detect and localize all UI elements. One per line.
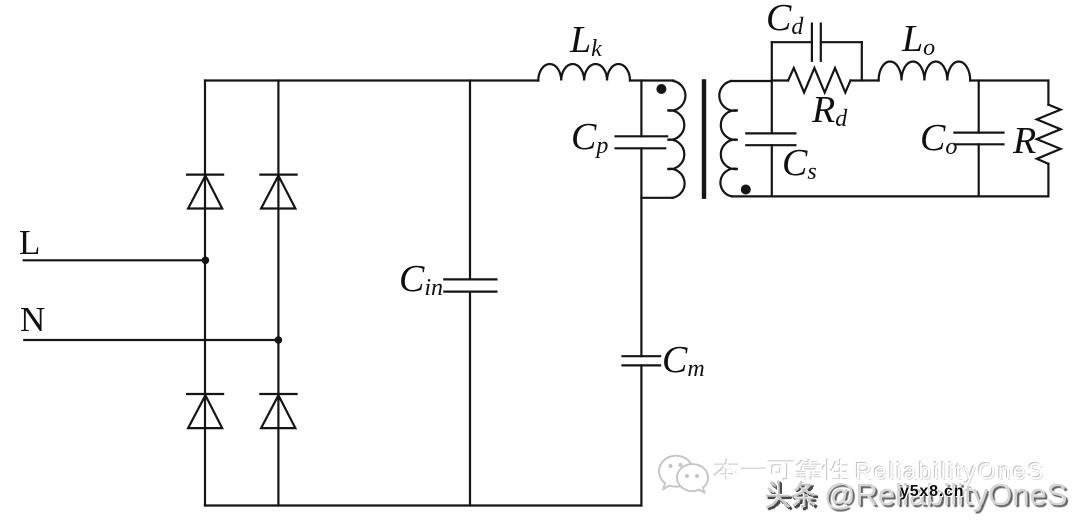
label R	[1013, 122, 1036, 160]
label L	[19, 225, 40, 260]
transformer secondary winding	[719, 81, 737, 196]
wire Cm to bottom rail	[640, 365, 642, 505]
watermark text line2	[824, 477, 1067, 513]
wire R branch upper	[1047, 81, 1049, 105]
wire primary branch lower	[640, 148, 642, 356]
wire Cd box top left	[772, 41, 812, 43]
watermark cjk line1 (ben yi ke kao xing)	[714, 459, 849, 481]
wire secondary top	[731, 80, 772, 82]
wire Cd box top right	[821, 41, 862, 43]
wire Cs branch lower	[771, 145, 773, 196]
wire Cs branch upper	[771, 42, 773, 133]
wire bridge left vertical	[204, 81, 206, 506]
capacitor Cd	[812, 24, 821, 61]
label Rd	[812, 91, 847, 131]
watermark url	[900, 483, 964, 501]
wire N input	[24, 339, 278, 341]
watermark text line1	[855, 458, 1045, 485]
wire Lk to primary	[630, 79, 673, 81]
label Lo	[902, 20, 935, 60]
resistor R	[1037, 105, 1061, 164]
resistor Rd	[788, 68, 850, 93]
label Cin	[399, 260, 443, 300]
wire primary bottom	[641, 197, 672, 199]
diode D2	[260, 175, 296, 209]
diode D1	[187, 175, 223, 209]
capacitor Cm	[623, 356, 661, 365]
diode D4	[260, 394, 296, 428]
watermark cjk line2 (tou tiao)	[768, 482, 818, 510]
wire bottom rail	[205, 504, 641, 506]
wire primary branch upper	[640, 81, 642, 137]
capacitor Co	[954, 133, 1003, 145]
label Cd	[766, 0, 803, 39]
inductor Lk	[538, 64, 630, 81]
wire secondary bottom rail	[732, 195, 1048, 197]
label Co	[920, 119, 957, 159]
wire L input	[24, 259, 206, 261]
label Cm	[662, 341, 705, 381]
label Lk	[570, 21, 602, 61]
diode D3	[187, 394, 223, 428]
inductor Lo	[879, 61, 971, 80]
wire top rail	[205, 79, 538, 81]
wire secondary rail to Rd	[772, 79, 788, 81]
capacitor Cp	[616, 136, 668, 148]
primary phase dot	[656, 84, 666, 94]
wire Lo to load	[970, 79, 1048, 81]
capacitor Cin	[444, 279, 496, 291]
label Cp	[571, 118, 608, 158]
label N	[20, 302, 45, 337]
wire Rd to Lo	[851, 79, 879, 81]
wire Cd box right vertical	[861, 42, 863, 80]
node N junction	[275, 336, 283, 344]
wire Cin branch top	[469, 81, 471, 280]
transformer core bar	[702, 79, 706, 199]
transformer primary winding	[667, 81, 685, 198]
watermark wechat icon	[655, 450, 715, 500]
wire Co branch upper	[978, 81, 980, 133]
wire bridge right vertical	[277, 81, 279, 506]
secondary phase dot	[741, 185, 751, 195]
label Cs	[782, 144, 817, 184]
wire R branch lower	[1047, 164, 1049, 197]
capacitor Cs	[746, 133, 795, 145]
wire Cin branch bottom	[469, 292, 471, 506]
wire Co branch lower	[978, 144, 980, 196]
node L junction	[202, 257, 210, 265]
